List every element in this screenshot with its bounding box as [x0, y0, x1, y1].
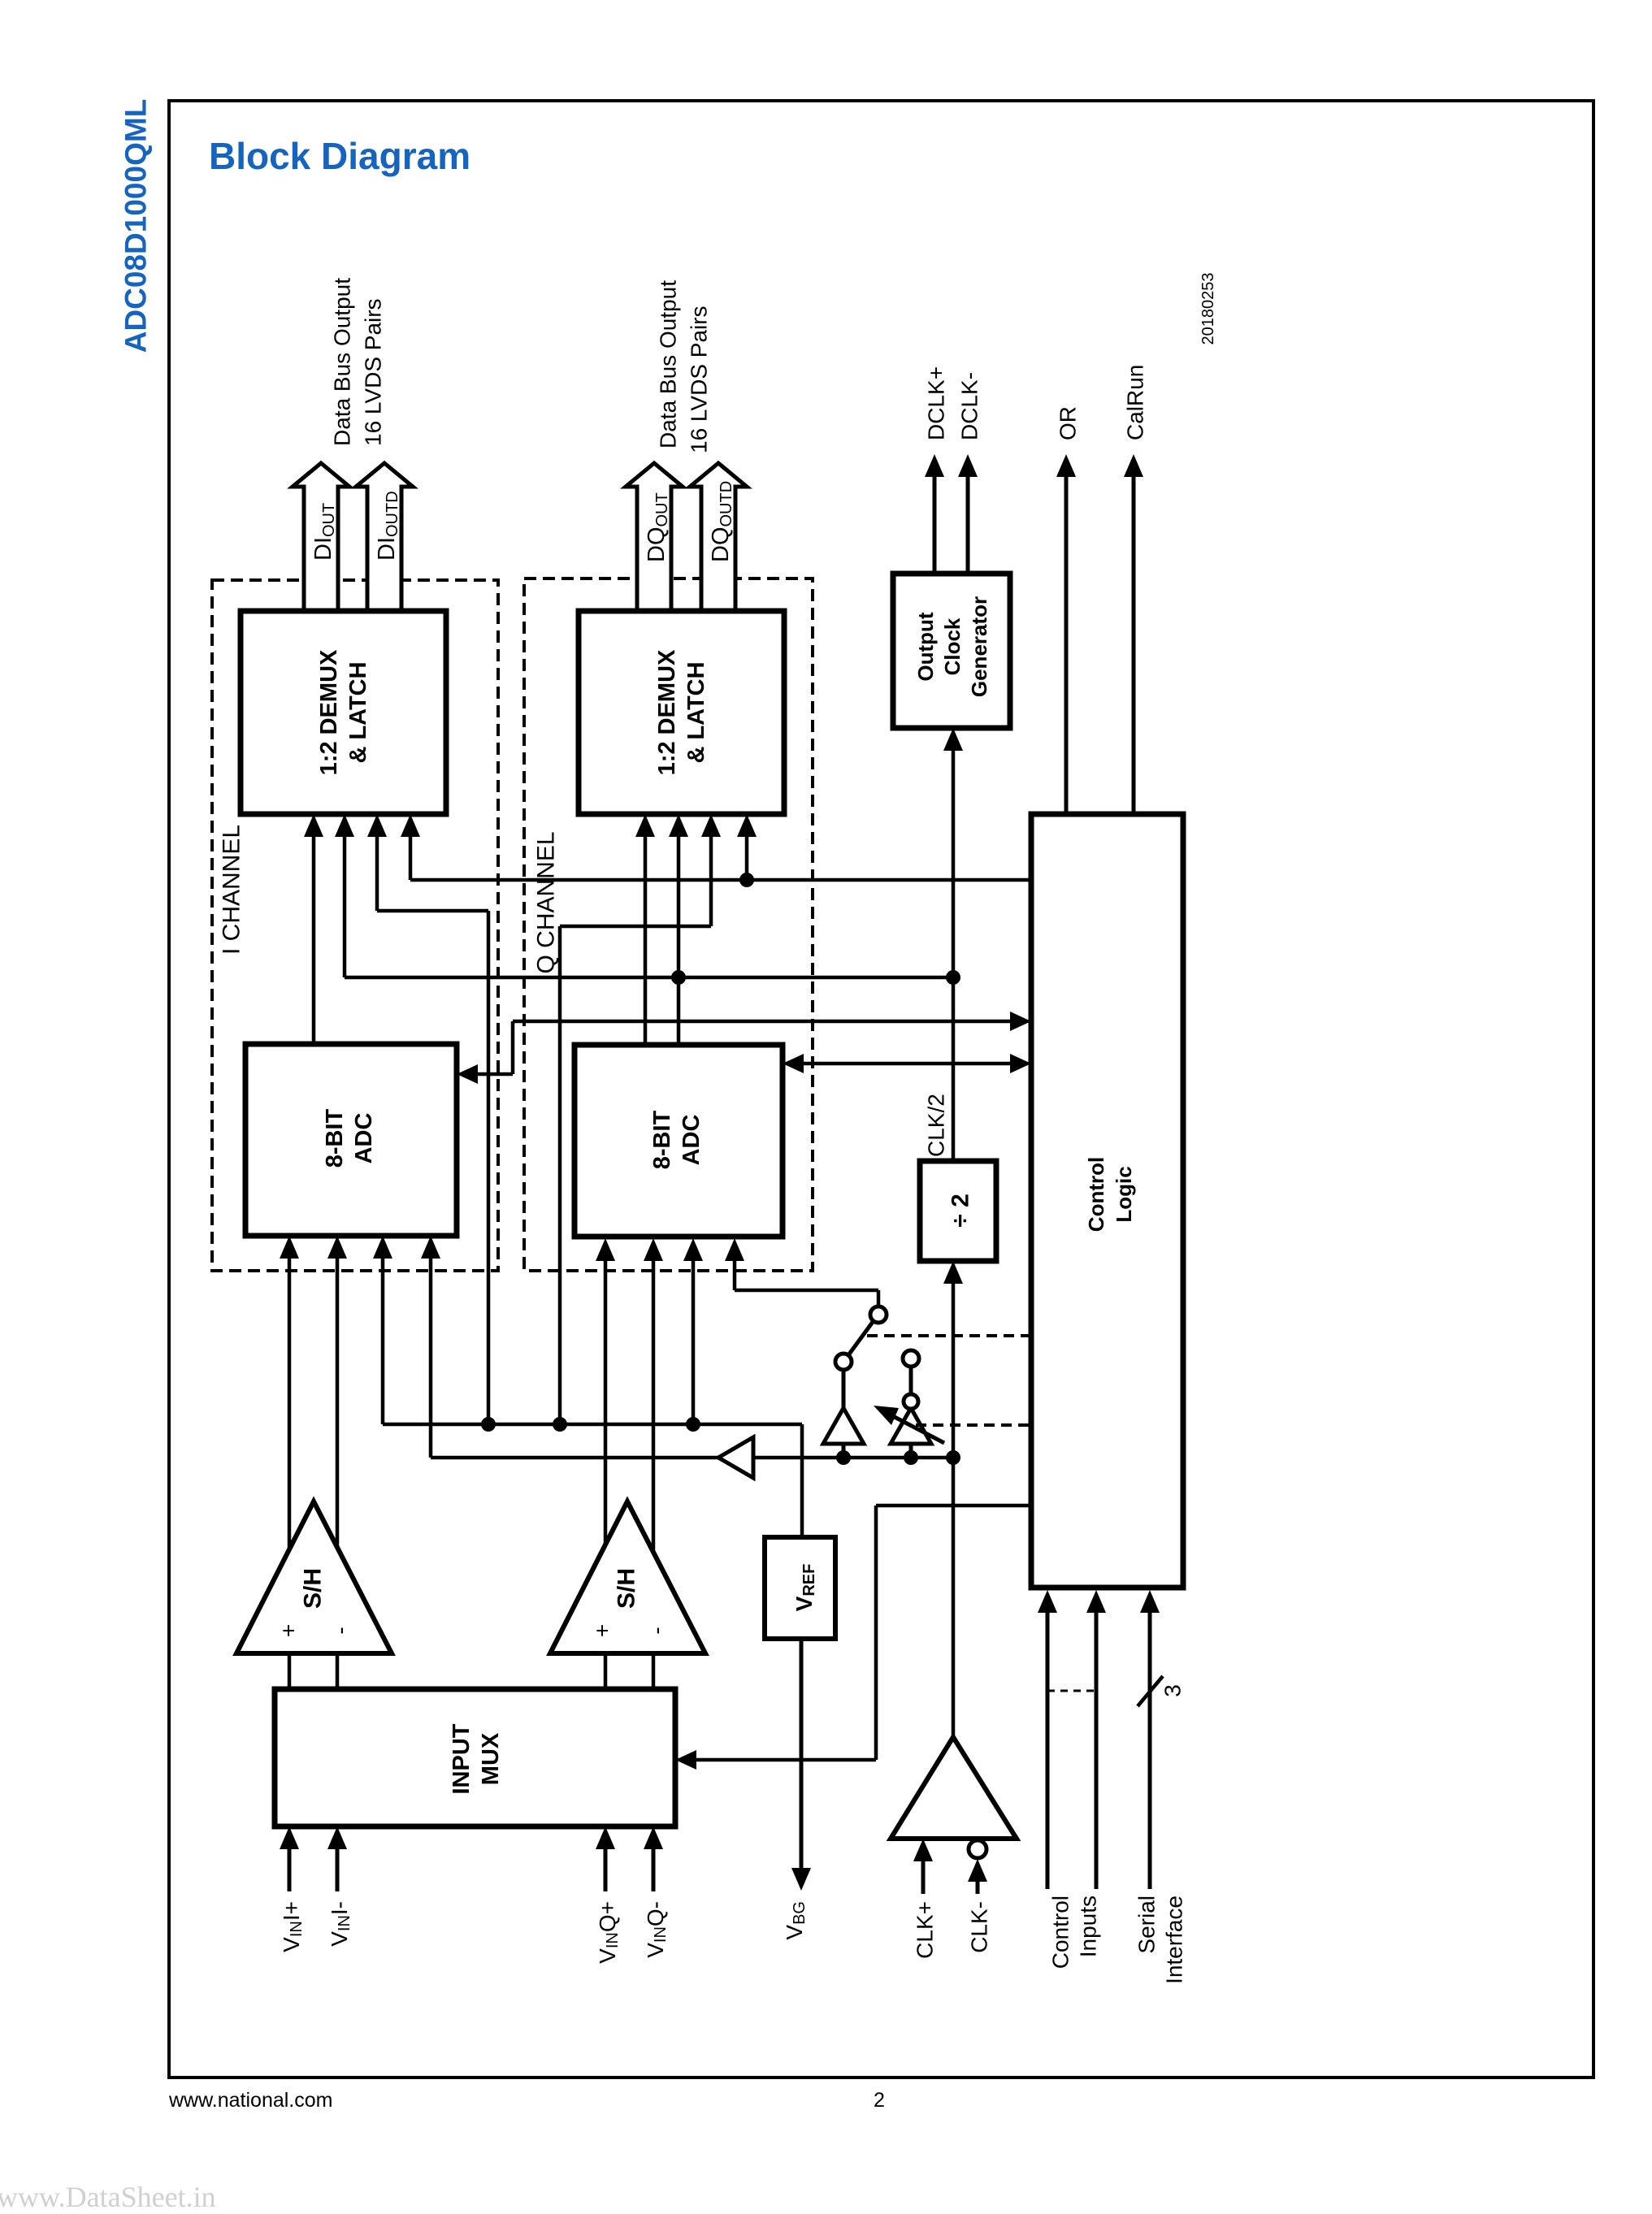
block I 1:2 DEMUX & LATCH	[241, 611, 446, 814]
VREF block	[765, 1537, 835, 1639]
svg-text:16 LVDS Pairs: 16 LVDS Pairs	[687, 305, 712, 453]
output clock generator block	[893, 574, 1010, 728]
svg-text:+: +	[276, 1624, 301, 1637]
VBG output arrow	[782, 1639, 812, 1940]
dashed control line to switch	[867, 1334, 1031, 1337]
input arrow VIN I+	[279, 1826, 306, 1952]
Q channel dashed box	[524, 578, 813, 1271]
CLK+ input arrow	[913, 1839, 938, 1959]
input arrow VIN Q-	[643, 1826, 670, 1958]
svg-text:Logic: Logic	[1112, 1166, 1136, 1222]
page border	[169, 101, 1593, 2078]
bidirectional bus Q-ADC to control logic	[783, 1054, 1031, 1073]
svg-text:ADC08D1000QML: ADC08D1000QML	[119, 99, 153, 353]
input mux block	[275, 1689, 675, 1826]
wire I-DEMUX bit4 with rail to control logic	[401, 814, 1031, 880]
svg-text:8-BIT: 8-BIT	[322, 1108, 348, 1168]
wire I-DEMUX bit3 down to reference rail	[367, 814, 488, 1424]
svg-text:Interface: Interface	[1162, 1896, 1187, 1984]
control inputs arrow 2	[1086, 1590, 1106, 1889]
wire Q-DEMUX bit3 down to reference rail	[560, 814, 721, 1424]
wire Q-ADC ref input	[683, 1238, 703, 1424]
svg-text:Output: Output	[913, 612, 938, 682]
buffer on bias rail	[718, 1437, 753, 1478]
svg-text:Inputs: Inputs	[1076, 1896, 1101, 1957]
svg-text:1:2 DEMUX: 1:2 DEMUX	[316, 649, 342, 775]
svg-text:÷ 2: ÷ 2	[947, 1194, 974, 1227]
svg-text:www.DataSheet.in: www.DataSheet.in	[0, 2181, 216, 2213]
CalRun output arrow	[1123, 365, 1148, 814]
svg-text:VINQ+: VINQ+	[595, 1901, 622, 1964]
svg-text:CLK/2: CLK/2	[924, 1094, 949, 1157]
svg-text:& LATCH: & LATCH	[345, 661, 371, 763]
svg-text:S/H: S/H	[300, 1568, 327, 1609]
wire Q-ADC to Q-DEMUX bit2	[669, 814, 688, 1045]
svg-text:8-BIT: 8-BIT	[649, 1110, 675, 1169]
svg-text:1:2 DEMUX: 1:2 DEMUX	[654, 649, 680, 775]
clamp device B (adjustable)	[874, 1350, 944, 1458]
svg-text:INPUT: INPUT	[449, 1723, 475, 1794]
DCLK+ output arrow	[924, 366, 949, 574]
svg-text:-: -	[328, 1627, 353, 1634]
svg-text:ADC: ADC	[351, 1113, 377, 1164]
svg-text:Generator: Generator	[967, 596, 991, 697]
svg-text:DCLK-: DCLK-	[957, 372, 982, 440]
bus arrow DIout	[293, 463, 349, 612]
wire control logic to input mux	[675, 1506, 1031, 1770]
svg-text:DCLK+: DCLK+	[924, 366, 949, 440]
bias rail into I-ADC	[421, 1236, 953, 1458]
svg-text:Q CHANNEL: Q CHANNEL	[533, 831, 560, 973]
svg-text:Control: Control	[1048, 1896, 1073, 1969]
junction dots on bias rail	[836, 1450, 851, 1465]
CLK- input arrow with inversion bubble	[967, 1840, 992, 1953]
svg-text:+: +	[590, 1624, 615, 1637]
bus arrow DIoutd	[356, 463, 413, 612]
svg-text:Serial: Serial	[1134, 1896, 1160, 1954]
wire Q-ADC to Q-DEMUX bit1	[635, 814, 655, 1045]
svg-text:3: 3	[1160, 1684, 1186, 1697]
bus width slash and label 3	[1138, 1676, 1186, 1706]
clock select switch	[725, 1238, 887, 1355]
block Q 1:2 DEMUX & LATCH	[579, 611, 784, 814]
Q S/H amplifier	[550, 1501, 705, 1653]
wires I S/H to I-ADC	[280, 1236, 347, 1549]
svg-text:MUX: MUX	[478, 1732, 504, 1785]
DCLK- output arrow	[957, 372, 982, 574]
OR output arrow	[1056, 406, 1081, 814]
svg-text:ADC: ADC	[679, 1115, 705, 1166]
svg-text:& LATCH: & LATCH	[683, 661, 709, 763]
junction dots on demux rails	[739, 873, 754, 887]
wire CLK up through divider to clock generator	[943, 728, 963, 1737]
bus arrow DQout	[626, 463, 683, 612]
svg-text:-: -	[644, 1627, 670, 1634]
clamp device A	[823, 1354, 864, 1458]
wire Q-DEMUX bit4	[737, 814, 757, 880]
svg-text:Data Bus Output: Data Bus Output	[330, 278, 355, 446]
svg-text:I CHANNEL: I CHANNEL	[219, 825, 245, 955]
svg-text:Control: Control	[1084, 1157, 1108, 1232]
wires input mux to I S/H	[289, 1653, 337, 1689]
bidirectional bus I-ADC to control logic	[457, 1012, 1031, 1084]
control logic block	[1031, 814, 1183, 1588]
junction dots on reference rail	[481, 1417, 496, 1432]
reference rail from VREF	[373, 1236, 802, 1537]
input arrow VIN Q+	[595, 1826, 622, 1964]
svg-text:CalRun: CalRun	[1123, 365, 1148, 440]
svg-text:Block Diagram: Block Diagram	[209, 135, 470, 177]
block Q 8-BIT ADC	[575, 1045, 783, 1237]
svg-text:16 LVDS Pairs: 16 LVDS Pairs	[361, 298, 386, 446]
wires Q S/H to Q-ADC	[596, 1238, 663, 1553]
input arrow VIN I-	[327, 1826, 354, 1947]
svg-text:OR: OR	[1056, 406, 1081, 440]
svg-text:2: 2	[874, 2089, 885, 2112]
wire I-ADC to I-DEMUX bit1	[304, 814, 323, 1044]
dashed tie between control input arrows	[1047, 1690, 1096, 1692]
svg-text:CLK+: CLK+	[913, 1901, 938, 1959]
wires input mux to Q S/H	[605, 1653, 653, 1689]
svg-text:20180253: 20180253	[1199, 273, 1217, 345]
svg-text:Data Bus Output: Data Bus Output	[656, 280, 681, 448]
I S/H amplifier	[236, 1501, 392, 1653]
bus arrow DQoutd	[690, 463, 747, 612]
control inputs arrow 1	[1038, 1590, 1057, 1889]
serial interface arrow	[1140, 1590, 1160, 1889]
svg-text:www.national.com: www.national.com	[168, 2089, 332, 2112]
svg-text:S/H: S/H	[614, 1568, 640, 1609]
clock comparator	[891, 1737, 1017, 1839]
dashed control line to clamp	[916, 1423, 1031, 1427]
divide-by-2 block	[920, 1161, 996, 1261]
wire I-DEMUX bit2 with clock rail to CLK/2	[335, 814, 953, 977]
block I 8-BIT ADC	[245, 1044, 457, 1236]
I channel dashed box	[212, 580, 498, 1271]
svg-text:CLK-: CLK-	[967, 1901, 992, 1953]
svg-text:Clock: Clock	[940, 617, 965, 675]
